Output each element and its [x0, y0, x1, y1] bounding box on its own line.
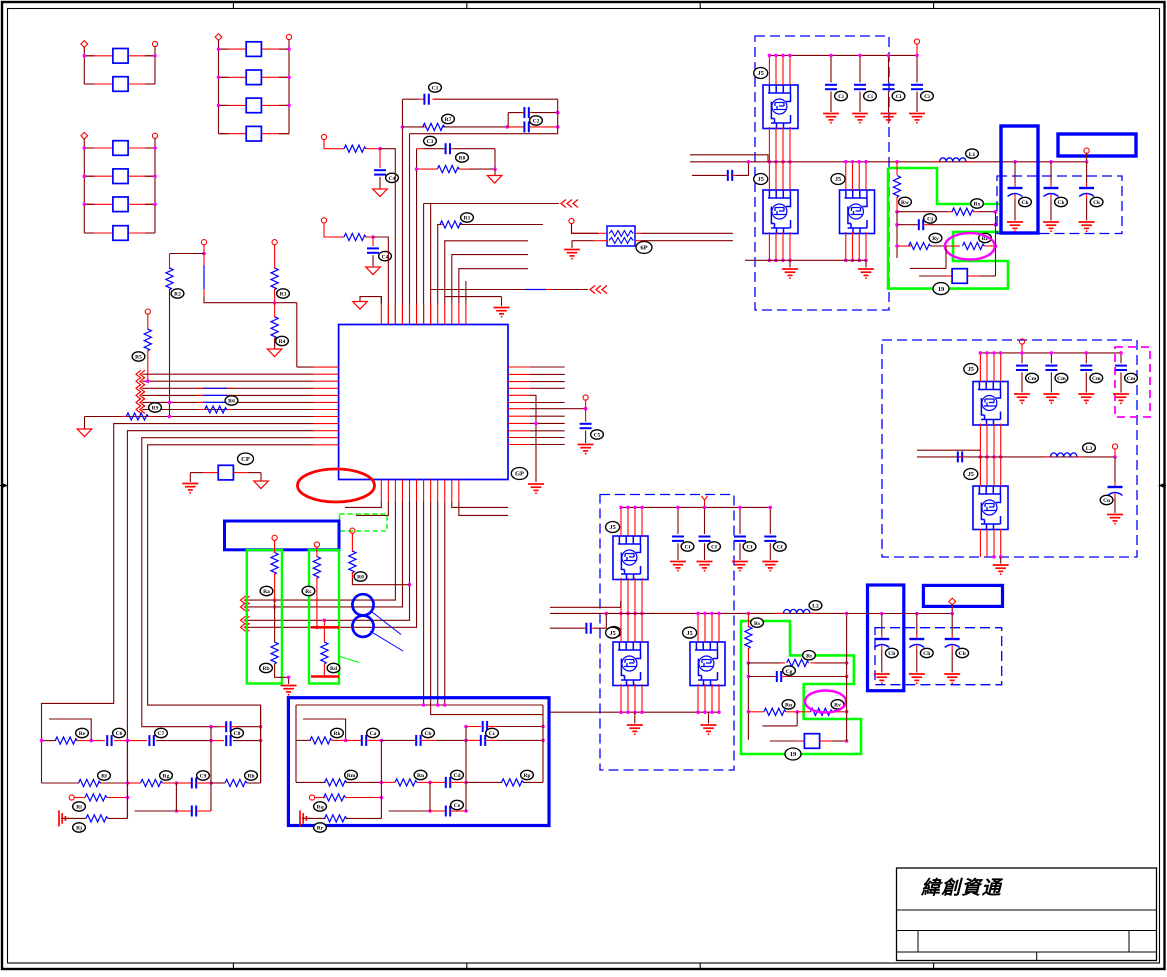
- resistor R42: [745, 627, 752, 649]
- svg-text:Ry: Ry: [932, 236, 939, 242]
- IC U1 bottom pin 4: [401, 480, 403, 502]
- junction P3-1R: [153, 146, 157, 150]
- wire chainA mid: [274, 600, 276, 642]
- junction P2-1R: [287, 47, 291, 51]
- capacitor C22: [149, 735, 153, 746]
- resistor R26: [440, 221, 462, 228]
- wire pin b6 route to green area: [247, 502, 417, 628]
- capacitor C28: [481, 735, 485, 746]
- junction rowB far right: [556, 125, 560, 129]
- wire row211: [897, 211, 948, 213]
- svg-text:J5: J5: [968, 366, 974, 373]
- wire right stub 11: [530, 437, 565, 439]
- label C15: [386, 173, 399, 182]
- wire right stub 9: [530, 422, 565, 424]
- resistor R25: [321, 642, 328, 664]
- svg-text:R6: R6: [228, 399, 235, 405]
- wire Q3 gnd stub: [865, 260, 867, 267]
- svg-text:Rj: Rj: [76, 826, 82, 832]
- junction bus cap3: [950, 612, 954, 616]
- svg-text:C3: C3: [427, 139, 434, 145]
- label C23: [231, 728, 244, 737]
- capacitor C41 electrolytic: [881, 614, 883, 635]
- wire jumper right: [819, 740, 832, 742]
- IC U1 bottom pin 11: [451, 480, 453, 502]
- wire D2 top rail: [769, 54, 917, 56]
- wire pin b8 to box feed: [431, 502, 543, 715]
- label R50: [899, 197, 912, 206]
- junction RC2 top feeds: [422, 703, 426, 707]
- svg-text:C1: C1: [432, 86, 439, 92]
- ground GT8: [353, 302, 368, 310]
- wire chain x169 down: [169, 254, 171, 270]
- capacitor C24: [192, 778, 196, 789]
- wire cap branch upper: [508, 113, 521, 127]
- resistor R37: [325, 779, 347, 786]
- power terminal T8: [583, 395, 588, 400]
- connector terminal P1-B: [152, 41, 157, 46]
- resistor R53: [962, 242, 984, 249]
- junction row607 x274: [273, 605, 277, 609]
- IC U1 left pin 3: [314, 380, 339, 382]
- resistor R33: [225, 779, 247, 786]
- chevron in row3: [136, 377, 145, 385]
- label Q2: [754, 174, 768, 185]
- wire rails P1: [84, 47, 155, 84]
- wire gnd branch: [572, 240, 593, 242]
- junction R13: [378, 147, 382, 151]
- junction P3-3R: [153, 203, 157, 207]
- junction row6 x169: [168, 401, 172, 405]
- junction row741 right: [845, 739, 849, 743]
- ground GE10: [782, 269, 798, 279]
- IC U1 top pin 1: [380, 304, 382, 325]
- label 99 upper: [933, 283, 949, 295]
- wire row P2-1: [219, 48, 247, 50]
- capacitor C43 electrolytic: [951, 614, 953, 635]
- svg-text:Cj: Cj: [927, 217, 933, 223]
- junction RC1 r3: [126, 796, 130, 800]
- wire RC2 row3: [309, 795, 314, 800]
- IC U1 top pin 5: [409, 304, 411, 325]
- wire right rail of top network: [410, 99, 558, 134]
- Q3 bottom pins: [845, 232, 847, 260]
- label C63: [1090, 197, 1103, 206]
- wire colored segment: [198, 387, 203, 389]
- junction Q8 bottom a: [992, 555, 996, 559]
- power terminal T6: [272, 240, 277, 245]
- regulator box B3: [1001, 126, 1038, 233]
- connector box B1: [225, 521, 340, 550]
- junction cap node: [584, 407, 588, 411]
- ground GE D1-2: [697, 562, 713, 572]
- wire T10 down: [274, 540, 276, 553]
- wire rails P2: [219, 40, 290, 134]
- junction P2-1L: [217, 47, 221, 51]
- bold red strap lower: [311, 675, 339, 678]
- wire bus row2 left: [142, 373, 313, 375]
- Q6 top pins: [697, 613, 699, 642]
- label C42: [920, 648, 933, 657]
- svg-text:Ce: Ce: [454, 803, 461, 809]
- junction RC1 r5a: [175, 809, 179, 813]
- IC U1 bottom pin 3: [394, 480, 396, 502]
- label R32: [160, 771, 173, 780]
- wire right stub 10: [530, 430, 565, 432]
- wire T7 down: [147, 314, 149, 330]
- resistor R43: [787, 659, 809, 666]
- IC U1 top pin 4: [401, 304, 403, 325]
- junction x748 row676: [747, 675, 751, 679]
- wire RC1 row1: [42, 740, 56, 742]
- capacitor C54 on rail: [916, 55, 918, 82]
- svg-text:R9: R9: [152, 406, 159, 412]
- label C10: [429, 83, 442, 92]
- label C41: [885, 648, 898, 657]
- capacitor C27: [416, 735, 420, 746]
- IC U1 top pin 13: [465, 304, 467, 325]
- label R24: [302, 586, 315, 595]
- wire chainB lower: [323, 620, 325, 642]
- capacitor C30: [446, 806, 450, 817]
- label R20: [149, 403, 162, 412]
- wire T13 down: [916, 44, 918, 55]
- junction rowB right: [505, 125, 509, 129]
- IC U1 left pin 9: [314, 423, 339, 425]
- svg-text:GP: GP: [515, 471, 524, 478]
- IC U1 right pin 3: [508, 381, 530, 383]
- connector box B4: [1058, 134, 1136, 156]
- junction bus left: [605, 612, 609, 616]
- capacitor C17: [580, 424, 592, 428]
- wire rowD right rail down: [494, 149, 496, 169]
- junction row726 b: [259, 725, 263, 729]
- wire pin b10 to RC rail: [444, 502, 446, 706]
- junction chainA gnd: [287, 676, 291, 680]
- svg-text:Ch: Ch: [959, 651, 966, 657]
- ground left GE6: [59, 810, 69, 826]
- jumper JP23: [246, 98, 261, 113]
- wire RC2 top rail: [296, 704, 543, 706]
- svg-text:Rf: Rf: [101, 774, 107, 780]
- capacitor C14: [446, 143, 450, 154]
- label R12: [456, 153, 469, 162]
- resistor R20 in row8: [122, 416, 127, 418]
- wire RC2 row4: [302, 817, 326, 819]
- IC U1 left pin 5: [314, 394, 339, 396]
- wire row P2-4: [219, 133, 247, 135]
- IC U1 left pin 1: [314, 366, 339, 368]
- wire jumper right: [967, 275, 980, 277]
- power terminal T7: [145, 309, 150, 314]
- wire bus row1 left: [297, 366, 314, 368]
- svg-text:R7: R7: [445, 117, 452, 123]
- jumper JP22: [246, 70, 261, 85]
- wire row D: [417, 148, 424, 150]
- wire mid stub vertical: [445, 297, 502, 306]
- IC U1 left pin 11: [314, 437, 339, 439]
- svg-text:Rv: Rv: [834, 703, 841, 709]
- wire CP left: [190, 472, 203, 474]
- ground GE12: [993, 565, 1009, 575]
- wire stub to ground: [494, 169, 496, 175]
- svg-text:Rw: Rw: [901, 200, 909, 206]
- wire colored segment: [198, 394, 203, 396]
- capacitor C13: [524, 121, 528, 132]
- IC U1 bottom pin 7: [423, 480, 425, 502]
- junction row3 x147: [146, 379, 150, 383]
- svg-text:Cm: Cm: [1127, 376, 1136, 382]
- svg-text:J5: J5: [610, 524, 616, 531]
- IC U1 right pin 6: [508, 402, 530, 404]
- junction P2-3R: [287, 104, 291, 108]
- label C17: [591, 430, 604, 439]
- wire RT1 out1: [635, 232, 641, 234]
- junction row620 x324b: [323, 619, 327, 623]
- connector terminal P1-A: [81, 41, 88, 48]
- wire node to cap: [585, 409, 587, 422]
- IC U1 body: [339, 325, 508, 480]
- resistor R32: [141, 779, 163, 786]
- power block dashed box D1: [600, 495, 734, 771]
- junction P3-2L: [83, 174, 87, 178]
- resistor R34: [85, 794, 107, 801]
- wire Q6 gnd stub: [708, 712, 710, 723]
- junction x897 row246: [895, 244, 899, 248]
- svg-text:Ck: Ck: [1021, 200, 1029, 206]
- resistor R50: [893, 176, 900, 198]
- chevron in row4: [136, 384, 145, 392]
- wire Q2 gnd stub: [789, 260, 791, 267]
- wire resistor to junction R13: [366, 148, 380, 150]
- junction P2-3L: [217, 104, 221, 108]
- IC U1 top pin 12: [458, 304, 460, 325]
- wire RC2 row726: [466, 726, 481, 728]
- svg-text:Ch: Ch: [888, 651, 895, 657]
- svg-text:Ri: Ri: [76, 805, 82, 811]
- svg-text:Cm: Cm: [1057, 376, 1066, 382]
- ground GE1: [182, 484, 198, 494]
- svg-text:19: 19: [790, 751, 797, 758]
- junction row726 a: [209, 725, 213, 729]
- chevrons green rows: [241, 596, 250, 604]
- IC U1 right pin 5: [508, 394, 530, 396]
- junction Q8 bottom b: [999, 555, 1003, 559]
- wire row P3-1: [84, 147, 113, 149]
- label 99 lower: [785, 748, 801, 760]
- wire right stub 4: [530, 387, 565, 389]
- IC U1 bottom pin 1: [380, 480, 382, 502]
- power terminal T5: [201, 240, 206, 245]
- capacitor C29: [446, 777, 450, 788]
- wire row12 L-route to RC net: [148, 445, 314, 783]
- wire cap to ground: [585, 431, 587, 444]
- label C34: [773, 542, 786, 551]
- wire stub y268: [910, 246, 946, 268]
- capacitor C74 on rail: [1120, 353, 1122, 363]
- label C14: [424, 136, 437, 145]
- jumper J10: [804, 734, 819, 749]
- wire RC1 rails: [128, 705, 261, 818]
- junction bus x748: [747, 160, 751, 164]
- ground GE D3-1: [1007, 222, 1023, 232]
- resistor R24: [313, 557, 320, 579]
- capacitor C63 electrolytic: [1086, 162, 1088, 183]
- svg-text:Ck: Ck: [1093, 200, 1101, 206]
- wire chain x897: [896, 162, 898, 175]
- wire pin t12 route right: [459, 269, 528, 304]
- IC U1 bottom pin 10: [444, 480, 446, 502]
- junction RC2 r5b: [464, 809, 468, 813]
- transistor Q3: [840, 190, 875, 234]
- label L1: [966, 149, 979, 158]
- label C62: [1055, 197, 1068, 206]
- thermistor RT1: [607, 226, 635, 246]
- wire junction down R13: [379, 149, 381, 168]
- wire pin b2 route left: [356, 502, 388, 516]
- IC U1 right pin 8: [508, 415, 530, 417]
- label R42: [751, 618, 764, 627]
- label C26: [367, 728, 380, 737]
- wire R17 to ground: [274, 338, 276, 349]
- wire row P3-4: [84, 232, 113, 234]
- wire chainA to ground: [275, 664, 289, 685]
- label C21: [113, 728, 126, 737]
- wire row246: [897, 245, 911, 247]
- IC U1 top pin 9: [437, 304, 439, 325]
- wire R21 to row584: [352, 572, 409, 585]
- wire RC2 row2: [296, 781, 326, 783]
- svg-text:R8: R8: [459, 156, 466, 162]
- junction P3-2R: [153, 174, 157, 178]
- label R45: [831, 700, 844, 709]
- wire bus row4 left: [142, 387, 313, 389]
- svg-text:R4: R4: [279, 339, 286, 345]
- IC U1 left pin 8: [314, 416, 339, 418]
- ground GE D2-2: [852, 114, 868, 124]
- wire pin t9 route right with resistor: [438, 225, 440, 304]
- ground GE9: [701, 725, 717, 735]
- IC U1 top pin 2: [387, 304, 389, 325]
- resistor R40: [324, 794, 346, 801]
- svg-text:R1: R1: [464, 216, 471, 222]
- resistor R51: [952, 208, 974, 215]
- resistor R11: [423, 123, 445, 130]
- wire T15 down: [1021, 344, 1023, 353]
- wire pin b1 route left: [345, 502, 381, 508]
- wire row P3-2: [84, 175, 113, 177]
- junction P3-3L: [83, 203, 87, 207]
- IC U1 right pin 4: [508, 387, 530, 389]
- capacitor C55: [728, 170, 732, 181]
- jumper JCP: [218, 465, 233, 480]
- wire jumper row y741: [770, 740, 797, 742]
- junction row246 right: [994, 244, 998, 248]
- ground GE3: [528, 484, 544, 494]
- wire right stub 1: [530, 366, 565, 368]
- wire T17 route: [572, 224, 599, 234]
- junction row676 right: [845, 675, 849, 679]
- junction RC1 r1c: [126, 739, 130, 743]
- wire chain x204 colored segment: [203, 254, 205, 266]
- svg-text:Re: Re: [79, 731, 86, 737]
- wire chain x748: [747, 613, 749, 627]
- label C73: [1090, 373, 1103, 382]
- label R19: [225, 396, 238, 405]
- ground below C15: [373, 189, 388, 197]
- wire net253 horizontal: [170, 253, 205, 255]
- junction row627 x317: [315, 626, 319, 630]
- resistor R12: [437, 166, 459, 173]
- label R23: [260, 663, 273, 672]
- label Q6: [683, 627, 697, 638]
- label R26: [461, 213, 474, 222]
- resistor R35: [86, 815, 108, 822]
- wire bus row7 left: [142, 409, 313, 411]
- highlight green bar A: [247, 550, 282, 684]
- highlight green loop upper: [888, 168, 1008, 289]
- wire row P3-3: [84, 203, 113, 205]
- svg-text:J5: J5: [758, 70, 764, 77]
- jumper JP34: [113, 226, 128, 241]
- highlight magenta dashed box D5: [1115, 347, 1150, 417]
- chevron in row2: [136, 370, 145, 378]
- wire terminal T5 down: [203, 245, 205, 254]
- svg-text:Cf: Cf: [747, 545, 753, 551]
- label R31: [98, 771, 111, 780]
- resistor R21: [349, 551, 356, 573]
- wire pin b9 to RC rail: [437, 502, 439, 706]
- highlight magenta ellipse upper: [945, 233, 995, 259]
- IC U1 right pin 10: [508, 430, 530, 432]
- junction P1-1R: [153, 54, 157, 58]
- resistor R39: [502, 779, 524, 786]
- svg-text:Cb: Cb: [424, 731, 431, 737]
- junction P3-1L: [83, 146, 87, 150]
- resistor R15: [166, 268, 173, 290]
- wire RC1 row3: [69, 795, 74, 800]
- IC U1 bottom pin 5: [409, 480, 411, 502]
- IC U1 right pin 1: [508, 366, 530, 368]
- svg-text:Ci: Ci: [867, 94, 873, 100]
- wire vertical rowC to IC pin: [409, 134, 411, 325]
- svg-text:Rt: Rt: [806, 653, 812, 659]
- wire cap branch y175: [692, 174, 725, 176]
- Q4 top pins: [620, 507, 622, 536]
- label C54: [921, 91, 934, 100]
- resistor R19 in row7: [200, 409, 205, 411]
- label R22: [260, 586, 273, 595]
- junction T5: [202, 252, 206, 256]
- highlight green loop lower: [741, 621, 861, 754]
- capacitor C21: [107, 735, 111, 746]
- wire RC2 feed y719: [303, 719, 346, 740]
- ground GE D2-3: [881, 114, 897, 124]
- junction bus cap1: [880, 612, 884, 616]
- junction RC1 r2c: [209, 781, 213, 785]
- label R43: [803, 651, 816, 660]
- power terminal R14: [321, 218, 326, 223]
- ground GT7: [254, 481, 269, 489]
- wire pin b3 route to green area: [247, 502, 396, 601]
- svg-text:Rk: Rk: [333, 731, 341, 737]
- wire R22 down: [274, 574, 276, 601]
- wire bus row8 left: [85, 416, 314, 418]
- svg-text:Cf: Cf: [777, 545, 783, 551]
- ground GE8: [627, 725, 643, 735]
- power terminal T17: [569, 218, 574, 223]
- label Q8: [964, 469, 978, 480]
